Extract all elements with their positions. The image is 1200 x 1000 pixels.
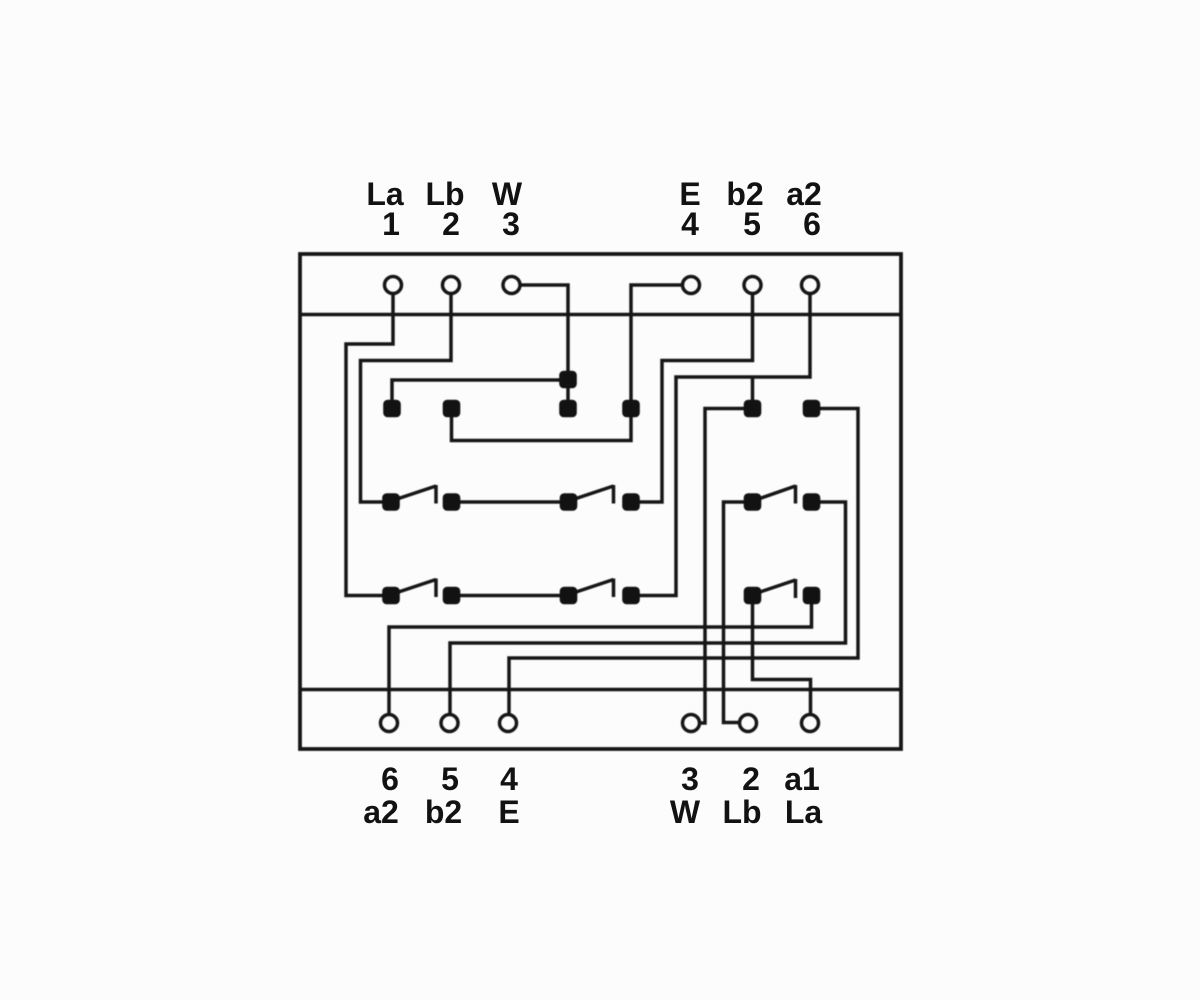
terminal 5 b2 (top, open circle) [744,277,761,294]
switch arm S5 (row 3 middle pair) [569,579,614,598]
wire node E1 left then down to bottom terminal 3 W [701,409,753,724]
svg-text:Lb: Lb [722,794,761,830]
contact A3 [382,587,400,605]
node A1 [383,400,401,418]
contact C3 [560,587,578,605]
contact E2 [744,493,762,511]
svg-text:4: 4 [681,206,699,242]
node E1 [744,400,762,418]
terminal 5 b2 (bottom, open circle) [441,715,458,732]
svg-text:2: 2 [442,206,460,242]
terminal 4 E (bottom, open circle) [500,715,517,732]
svg-text:5: 5 [441,761,459,797]
contact B3 [443,587,461,605]
switch arm S4 (row 3 left pair) [391,579,436,598]
wire E branch: node D1 down, left, up to node B1 [452,409,632,441]
contact A2 [382,493,400,511]
svg-text:3: 3 [681,761,699,797]
contact C2 [560,493,578,511]
svg-text:6: 6 [803,206,821,242]
wire E lead: terminal 4 left then down to node D1 [631,285,682,409]
wire a2 lead: terminal 6 down, left, down to row-3 right contact D3 [631,294,810,596]
contact F2 [803,493,821,511]
terminal 2 Lb (bottom, open circle) [740,715,757,732]
svg-text:W: W [670,794,701,830]
node J (W junction) [559,371,577,389]
top terminal strip line [300,313,901,317]
wire node E2 left then down to bottom terminal 2 Lb [724,502,753,723]
svg-text:La: La [785,794,823,830]
terminal 4 E (top, open circle) [683,277,700,294]
bottom terminal strip line [300,688,901,692]
terminal block outer box [300,254,901,749]
contact E3 [744,587,762,605]
contact D3 [622,587,640,605]
wire row-3 link B3 to C3 [452,594,569,598]
terminal 2 Lb (top, open circle) [443,277,460,294]
svg-text:a2: a2 [363,794,399,830]
wire W lead: terminal 3 right then down through node J to node C1 [520,285,568,409]
svg-text:5: 5 [743,206,761,242]
wire a2 T-branch down to node E1 [751,377,755,409]
contact F3 [803,587,821,605]
node F1 [803,400,821,418]
terminal 3 W (bottom, open circle) [683,715,700,732]
svg-text:b2: b2 [425,794,462,830]
terminal a1 La (bottom, open circle) [802,715,819,732]
wire b2 lead: terminal 5 down, left, down to row-2 right contact D2 [631,294,753,503]
terminal 3 W (top, open circle) [503,277,520,294]
wire row-2 link B2 to C2 [452,500,569,504]
svg-text:E: E [498,794,519,830]
wire node E3 down, right, down to bottom terminal a1 La [753,596,811,715]
svg-text:3: 3 [502,206,520,242]
terminal 6 a2 (top, open circle) [802,277,819,294]
wire Lb lead: terminal 2 down, left, down to row-2 contact [361,294,452,503]
node C1 [559,400,577,418]
wire node F2 right, down, H2 run left, down to bottom terminal 5 b2 [450,502,846,714]
switch arm S3 (row 2 right pair) [753,485,796,504]
svg-text:2: 2 [742,761,760,797]
svg-text:1: 1 [382,206,400,242]
wire node F3 down, H1 run left, down to bottom terminal 6 a2 [389,596,812,715]
svg-text:a1: a1 [784,761,820,797]
switch arm S6 (row 3 right pair) [753,579,796,598]
switch arm S1 (row 2 left pair) [391,485,436,504]
contact D2 [622,493,640,511]
wire node F1 right, down, H3 run left, down to bottom terminal 4 E [509,409,858,715]
svg-text:6: 6 [381,761,399,797]
terminal 1 La (top, open circle) [385,277,402,294]
node D1 [622,400,640,418]
node B1 [443,400,461,418]
switch arm S2 (row 2 middle pair) [569,485,614,504]
svg-text:4: 4 [500,761,518,797]
contact B2 [443,493,461,511]
wire W branch: from node J left then down to node A1 [392,380,568,409]
wire La lead: terminal 1 down, left, down to row-3 contact [346,294,393,596]
terminal 6 a2 (bottom, open circle) [381,715,398,732]
